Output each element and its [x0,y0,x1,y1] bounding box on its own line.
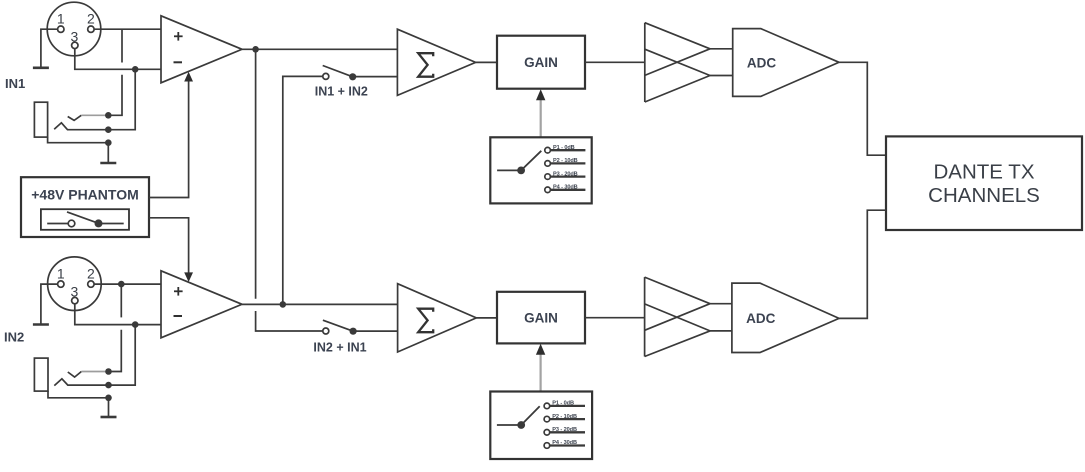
summing amp SUM1 [397,29,475,95]
svg-text:ADC: ADC [747,55,776,70]
rotary switch 1 contact P4 [545,187,551,193]
rotary gain switch box 1 [490,137,591,203]
phantom switch left wire [47,223,68,225]
rotary switch 2 contact P1 [544,403,550,409]
wire SUM2 to GAIN2 [476,317,497,319]
buffer amplifier pair 2 [645,277,732,356]
jack J2 tip wire (gray) [81,371,106,373]
gain select arrow 2 (gray shaft) [539,354,541,392]
ground (XLR1 pin1) [33,67,49,70]
svg-text:IN1 + IN2: IN1 + IN2 [315,85,368,99]
DANTE TX CHANNELS box [886,136,1082,230]
junction dot U1 output [252,46,259,53]
wire U1 output down to switch S2 (hop over U2 output) [255,49,257,298]
wire phantom to U1 [149,81,189,198]
rotary switch 2 contact P4 [544,443,550,449]
op-amp U1 [161,16,242,83]
GAIN1 box [497,36,585,89]
rotary switch 2 lever [521,406,540,425]
gain select arrowhead 1 [536,89,545,100]
junction dot ring contact (IN1 jack) [105,126,112,133]
arrowhead phantom into U1 [184,72,193,82]
junction dot U2 output [280,301,287,308]
switch S1 lever [323,66,353,77]
ground (XLR2 pin1) [33,323,49,326]
wire U2 output to SUM2 [242,303,398,305]
junction dot minus net x135 (IN2) [132,321,139,328]
switch S2 pole dot [350,328,357,335]
svg-text:2: 2 [87,11,95,27]
buffer amplifier pair 1 [645,23,733,102]
svg-text:P2 - 10dB: P2 - 10dB [552,414,577,420]
op-amp U2 plus sign [174,287,183,296]
wire ring contact to minus net [54,69,135,129]
op-amp U1 minus sign [174,61,183,63]
XLR IN1 pin 3 [72,42,78,48]
op-amp U2 [161,271,242,338]
switch S1 pole dot [349,73,356,80]
rotary switch 2 contact P2 [544,416,550,422]
op-amp U2 minus sign [174,315,183,317]
rotary switch 2 common stub [497,424,518,426]
XLR IN2 pin 2 [88,281,94,287]
wire S1 to SUM1 [353,76,398,78]
XLR IN1 pin 1 [58,26,64,32]
svg-text:3: 3 [71,283,79,299]
rotary switch 1 contact lines [550,149,585,151]
svg-text:+48V PHANTOM: +48V PHANTOM [31,187,139,203]
rotary switch 1 pole dot [517,167,525,175]
ADC1 block [733,29,839,97]
phantom switch open contact [68,220,75,227]
wire buffer2 top to ADC2 [710,303,732,305]
wire XLR2 pin1 to ground [41,284,58,324]
svg-text:P4 - 30dB: P4 - 30dB [553,185,578,191]
GAIN2 box [497,292,585,344]
svg-text:2: 2 [87,266,95,282]
rotary switch 2 contact P3 [544,430,550,436]
wire XLR1 pin1 to ground [41,29,58,67]
wire XLR1 pin3 to amp - input [75,49,161,70]
svg-text:GAIN: GAIN [524,55,558,70]
wire jack J2 sleeve [48,391,109,416]
wire U1 output to SUM1 [242,48,397,50]
rotary switch 1 common stub [497,169,517,171]
svg-text:P2 - 10dB: P2 - 10dB [553,158,578,164]
wire phantom to U2 [149,218,189,273]
ground (jack J1) [100,162,116,165]
wire GAIN1 to buffer pair 1 [585,61,645,63]
wire ADC2 to DANTE box [839,210,886,318]
rotary switch 2 contact lines [550,405,585,407]
jack J1 body [34,102,47,137]
junction dot pin2 net (IN2) [118,281,125,288]
ground (jack J2) [101,416,117,419]
junction dot sleeve (IN1 jack) [105,139,112,146]
switch S2 open contact [323,328,329,334]
junction dot minus net x135 (IN1) [132,66,139,73]
svg-text:DANTE TX: DANTE TX [934,160,1035,183]
wire S2 to SUM2 [353,330,398,332]
rotary switch 1 contact P2 [545,161,551,167]
svg-text:P3 - 20dB: P3 - 20dB [553,171,578,177]
svg-text:CHANNELS: CHANNELS [928,184,1040,207]
junction dot tip contact (IN2 jack) [105,368,112,375]
wire normal tip vertical (hop over minus wire) [108,75,122,116]
wire normal tip vertical IN2 (hop) [109,330,122,372]
phantom switch right wire [99,223,124,225]
wire SUM1 to GAIN1 [476,61,497,63]
summing amp SUM2 [398,284,477,352]
jack J2 tip contact [68,372,82,378]
rotary switch 2 pole dot [517,421,525,429]
wire buffer1 top to ADC1 [710,48,733,50]
svg-text:1: 1 [57,11,65,27]
junction dot tip contact (IN1 jack) [105,112,112,119]
wire U2 output up to switch S1 [283,76,323,304]
XLR connector IN1 body [47,2,101,56]
switch S2 lever [323,320,353,331]
wire jack J1 sleeve [48,137,109,162]
sigma glyph SUM1 [418,53,433,76]
XLR IN1 pin 2 [88,26,94,32]
svg-text:1: 1 [57,266,65,282]
wire XLR2 pin2 to amp + input [94,283,161,285]
svg-text:P3 - 20dB: P3 - 20dB [552,427,577,433]
arrowhead phantom into U2 [184,272,193,282]
phantom switch lever [67,212,99,223]
phantom switch pole dot [95,219,103,227]
rotary switch 1 contact P1 [545,147,551,153]
wire buffer1 bottom to ADC1 [710,75,733,77]
ADC2 block [732,283,839,352]
svg-text:P1 - 0dB: P1 - 0dB [553,145,575,151]
svg-text:P1 - 0dB: P1 - 0dB [552,401,574,407]
svg-text:IN1: IN1 [5,76,25,91]
svg-text:P4 - 30dB: P4 - 30dB [552,440,577,446]
+48V PHANTOM box [21,177,149,237]
jack J2 body [34,358,48,391]
jack J1 tip contact [68,115,82,120]
rotary switch 1 contact P3 [545,174,551,180]
svg-text:IN2: IN2 [4,330,24,345]
rotary gain switch box 2 [490,392,592,460]
wire XLR1 pin2 to amp + input [94,28,161,30]
gain select arrow 1 (gray shaft) [540,100,542,138]
sigma glyph SUM2 [418,309,433,333]
wire XLR2 pin3 to amp - input [75,304,161,325]
svg-text:GAIN: GAIN [524,311,558,326]
svg-text:3: 3 [71,29,79,45]
wire GAIN2 to buffer pair 2 [585,317,645,319]
svg-text:IN2 + IN1: IN2 + IN1 [313,341,366,355]
switch S1 open contact [323,73,329,79]
wire ADC1 to DANTE box [839,62,886,155]
wire buffer2 bottom to ADC2 [710,330,732,332]
gain select arrowhead 2 [536,344,545,355]
phantom switch inner box [41,209,129,230]
junction dot sleeve (IN2 jack) [105,395,112,402]
junction dot ring contact (IN2 jack) [105,382,112,389]
op-amp U1 plus sign [174,32,183,41]
jack J1 tip wire (gray) [81,114,106,116]
XLR IN2 pin 3 [72,297,78,303]
svg-text:ADC: ADC [746,311,775,326]
XLR connector IN2 body [48,257,102,311]
wire ring contact to minus net IN2 [54,325,135,386]
XLR IN2 pin 1 [58,281,64,287]
rotary switch 1 lever [521,151,541,171]
